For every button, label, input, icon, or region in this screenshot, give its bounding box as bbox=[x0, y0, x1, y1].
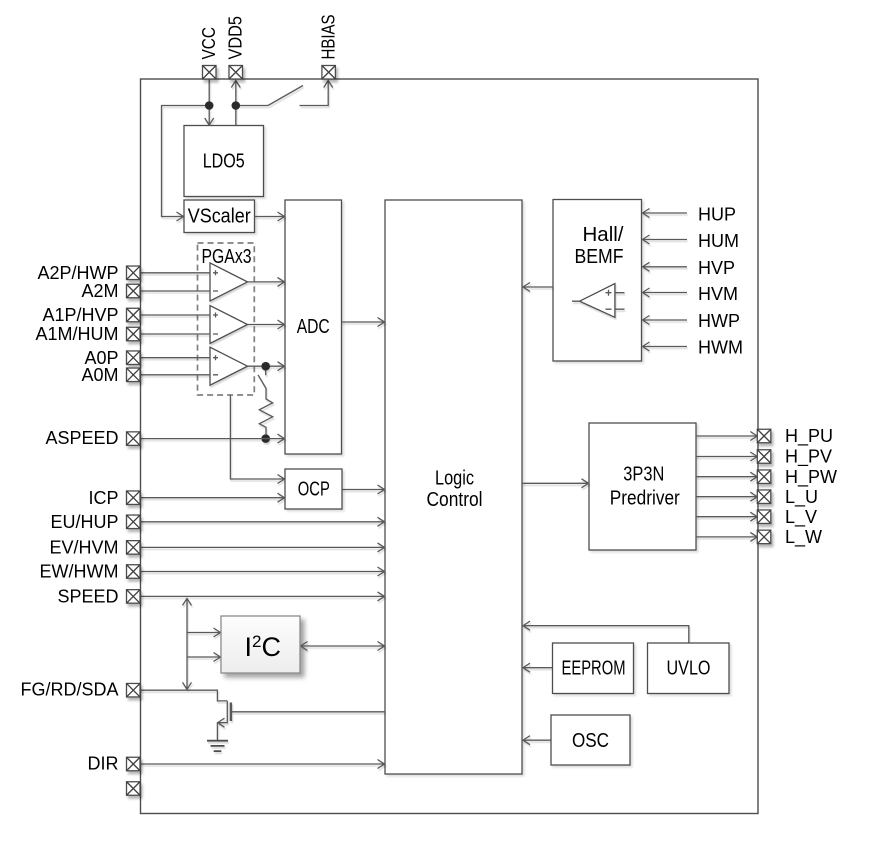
junction node VDD5 bbox=[232, 101, 241, 110]
svg-text:HWP: HWP bbox=[698, 311, 740, 331]
comparator inside Hall block bbox=[580, 284, 615, 318]
block I2C bbox=[221, 616, 300, 673]
wire ICP to OCP bbox=[140, 493, 285, 502]
pin ASPEED bbox=[127, 432, 141, 446]
svg-text:H_PW: H_PW bbox=[785, 467, 837, 488]
wire VScaler to ADC bbox=[255, 212, 285, 221]
svg-text:BEMF: BEMF bbox=[575, 246, 624, 268]
wire L_U bbox=[696, 492, 757, 501]
svg-text:L_U: L_U bbox=[785, 487, 818, 508]
wire H_PW bbox=[696, 472, 757, 481]
wire HUM bbox=[643, 235, 688, 244]
wire A2P/HWP input bbox=[140, 272, 210, 274]
svg-text:UVLO: UVLO bbox=[667, 658, 711, 680]
pin A1P/HVP bbox=[127, 308, 141, 322]
wire EW/HWM to Logic Control bbox=[140, 567, 385, 576]
wire PGA bottom to OCP bbox=[230, 395, 284, 484]
block VScaler bbox=[184, 200, 255, 233]
wire FG/RD/SDA to transistor bbox=[140, 690, 227, 701]
svg-text:A1P/HVP: A1P/HVP bbox=[42, 305, 118, 325]
wire HVP bbox=[643, 262, 688, 271]
pin EU/HUP bbox=[127, 515, 141, 529]
wire DIR to Logic Control bbox=[140, 760, 385, 769]
wire HUP bbox=[643, 209, 688, 218]
svg-text:VCC: VCC bbox=[199, 27, 219, 60]
svg-text:ADC: ADC bbox=[297, 316, 330, 338]
svg-text:A2M: A2M bbox=[81, 281, 118, 301]
pin L_U bbox=[757, 490, 771, 504]
block LDO5 bbox=[184, 126, 264, 197]
wire VDD5 branch to switch bbox=[236, 105, 268, 107]
svg-text:HWM: HWM bbox=[698, 338, 743, 358]
svg-text:DIR: DIR bbox=[88, 754, 119, 774]
svg-text:LDO5: LDO5 bbox=[203, 151, 245, 173]
wire source to ground bbox=[216, 723, 218, 741]
svg-text:HVP: HVP bbox=[698, 258, 735, 278]
block ADC bbox=[285, 200, 342, 454]
pin HBIAS bbox=[322, 66, 336, 80]
block 3P3N Predriver bbox=[589, 423, 696, 550]
wire L_W bbox=[696, 532, 757, 541]
junction node op-amp A0 output bbox=[261, 362, 270, 371]
svg-text:ICP: ICP bbox=[88, 488, 118, 508]
svg-text:Predriver: Predriver bbox=[610, 487, 680, 509]
svg-text:HUP: HUP bbox=[698, 204, 736, 224]
svg-text:Control: Control bbox=[427, 489, 483, 511]
wire A2M input bbox=[140, 290, 210, 292]
svg-text:A1M/HUM: A1M/HUM bbox=[35, 324, 118, 344]
ground bbox=[207, 741, 228, 751]
wire Hall to Logic Control bbox=[523, 283, 553, 292]
wire EV/HVM to Logic Control bbox=[140, 543, 385, 552]
pin EV/HVM bbox=[127, 541, 141, 555]
wire SPEED/FG branch vertical to I2C bbox=[183, 598, 192, 689]
svg-text:3P3N: 3P3N bbox=[623, 464, 664, 486]
svg-text:L_V: L_V bbox=[785, 507, 817, 528]
wire H_PV bbox=[696, 452, 757, 461]
transistor Q1 channel bbox=[218, 701, 228, 727]
wire HWM bbox=[643, 342, 688, 351]
block OCP bbox=[285, 469, 342, 509]
block Logic Control bbox=[385, 200, 522, 774]
block OSC bbox=[551, 715, 630, 765]
wire HWP bbox=[643, 316, 688, 325]
wire branch to I2C lower bbox=[187, 653, 221, 662]
svg-text:HVM: HVM bbox=[698, 284, 738, 304]
wire VCC branch to VScaler bbox=[162, 106, 210, 222]
svg-text:A2P/HWP: A2P/HWP bbox=[37, 263, 118, 283]
wire ADC to Logic Control bbox=[342, 318, 385, 327]
dashed box PGAx3 bbox=[198, 243, 255, 395]
pin unnamed below DIR bbox=[127, 782, 141, 796]
pin A2M bbox=[127, 284, 141, 298]
wire HVM bbox=[643, 288, 688, 297]
wire H_PU bbox=[696, 432, 757, 441]
wire VCC down to LDO5 with arrow bbox=[205, 79, 214, 125]
wire branch to I2C upper bbox=[187, 628, 221, 637]
wire A0M input bbox=[140, 374, 210, 376]
wire A1P/HVP input bbox=[140, 314, 210, 316]
svg-text:EU/HUP: EU/HUP bbox=[50, 512, 118, 532]
svg-text:Logic: Logic bbox=[435, 468, 474, 490]
svg-text:L_W: L_W bbox=[785, 527, 822, 548]
svg-text:H_PV: H_PV bbox=[785, 447, 832, 468]
op-amp A1 bbox=[210, 306, 248, 344]
wire ASPEED to ADC bbox=[140, 434, 285, 443]
pin A0P bbox=[127, 351, 141, 365]
wire EU/HUP to Logic Control bbox=[140, 517, 385, 526]
pin H_PW bbox=[757, 470, 771, 484]
transistor Q1 gate bar bbox=[230, 703, 232, 722]
svg-text:VDD5: VDD5 bbox=[226, 16, 246, 60]
pin H_PV bbox=[757, 450, 771, 464]
svg-text:EV/HVM: EV/HVM bbox=[49, 538, 118, 558]
wire op-amp A1 output to ADC bbox=[248, 320, 285, 329]
block EEPROM bbox=[553, 643, 634, 694]
svg-text:SPEED: SPEED bbox=[57, 587, 118, 607]
wire A1M/HUM input bbox=[140, 333, 210, 335]
svg-text:OCP: OCP bbox=[298, 479, 330, 501]
svg-text:H_PU: H_PU bbox=[785, 426, 833, 447]
wire Logic Control to 3P3N bbox=[522, 479, 589, 488]
pin L_W bbox=[757, 530, 771, 544]
pin L_V bbox=[757, 510, 771, 524]
wire switch contact to HBIAS with arrow bbox=[300, 81, 333, 106]
pin H_PU bbox=[757, 429, 771, 443]
pin ICP bbox=[127, 491, 141, 505]
chip outline rectangle bbox=[141, 79, 759, 814]
svg-text:FG/RD/SDA: FG/RD/SDA bbox=[20, 680, 118, 700]
svg-text:PGAx3: PGAx3 bbox=[202, 246, 252, 268]
svg-text:EEPROM: EEPROM bbox=[562, 658, 626, 680]
switch under A0 output bbox=[258, 371, 266, 390]
svg-text:HBIAS: HBIAS bbox=[319, 15, 339, 60]
junction node ASPEED bbox=[261, 434, 270, 443]
wire op-amp A0 output to ADC bbox=[248, 362, 285, 371]
op-amp A0 bbox=[210, 347, 248, 385]
op-amp A2 bbox=[210, 263, 248, 301]
pin A1M/HUM bbox=[127, 327, 141, 341]
wire OCP to Logic Control bbox=[342, 485, 385, 494]
wire OSC to Logic Control bbox=[523, 736, 551, 745]
wire op-amp A2 output to ADC bbox=[248, 277, 285, 286]
pin EW/HWM bbox=[127, 565, 141, 579]
pin DIR bbox=[127, 757, 141, 771]
resistor to ASPEED bbox=[259, 389, 272, 434]
wire L_V bbox=[696, 512, 757, 521]
pin A0M bbox=[127, 368, 141, 382]
svg-text:VScaler: VScaler bbox=[188, 206, 251, 228]
svg-text:A0M: A0M bbox=[81, 365, 118, 385]
block Hall/BEMF bbox=[553, 200, 642, 362]
switch blade bbox=[268, 86, 303, 106]
wire UVLO to Logic Control bbox=[523, 621, 689, 643]
pin A2P/HWP bbox=[127, 266, 141, 280]
block UVLO bbox=[648, 643, 730, 694]
wire A0P input bbox=[140, 357, 210, 359]
wire SPEED to Logic Control bbox=[140, 592, 385, 601]
pin VDD5 bbox=[229, 66, 243, 80]
svg-text:OSC: OSC bbox=[572, 730, 609, 752]
junction node VCC bbox=[205, 101, 214, 110]
pin FG/RD/SDA bbox=[127, 683, 141, 697]
wire I2C to Logic Control bidirectional bbox=[301, 642, 385, 651]
svg-text:Hall/: Hall/ bbox=[583, 224, 624, 246]
wire VDD5 from LDO5 up to pin with arrow bbox=[231, 81, 240, 126]
svg-text:I2C: I2C bbox=[245, 632, 281, 662]
svg-text:ASPEED: ASPEED bbox=[45, 428, 118, 448]
svg-text:HUM: HUM bbox=[698, 231, 739, 251]
pin VCC bbox=[203, 66, 217, 80]
pin SPEED bbox=[127, 590, 141, 604]
wire gate to Logic Control bbox=[231, 711, 385, 713]
svg-text:EW/HWM: EW/HWM bbox=[40, 562, 119, 582]
wire EEPROM to Logic Control bbox=[523, 663, 553, 672]
